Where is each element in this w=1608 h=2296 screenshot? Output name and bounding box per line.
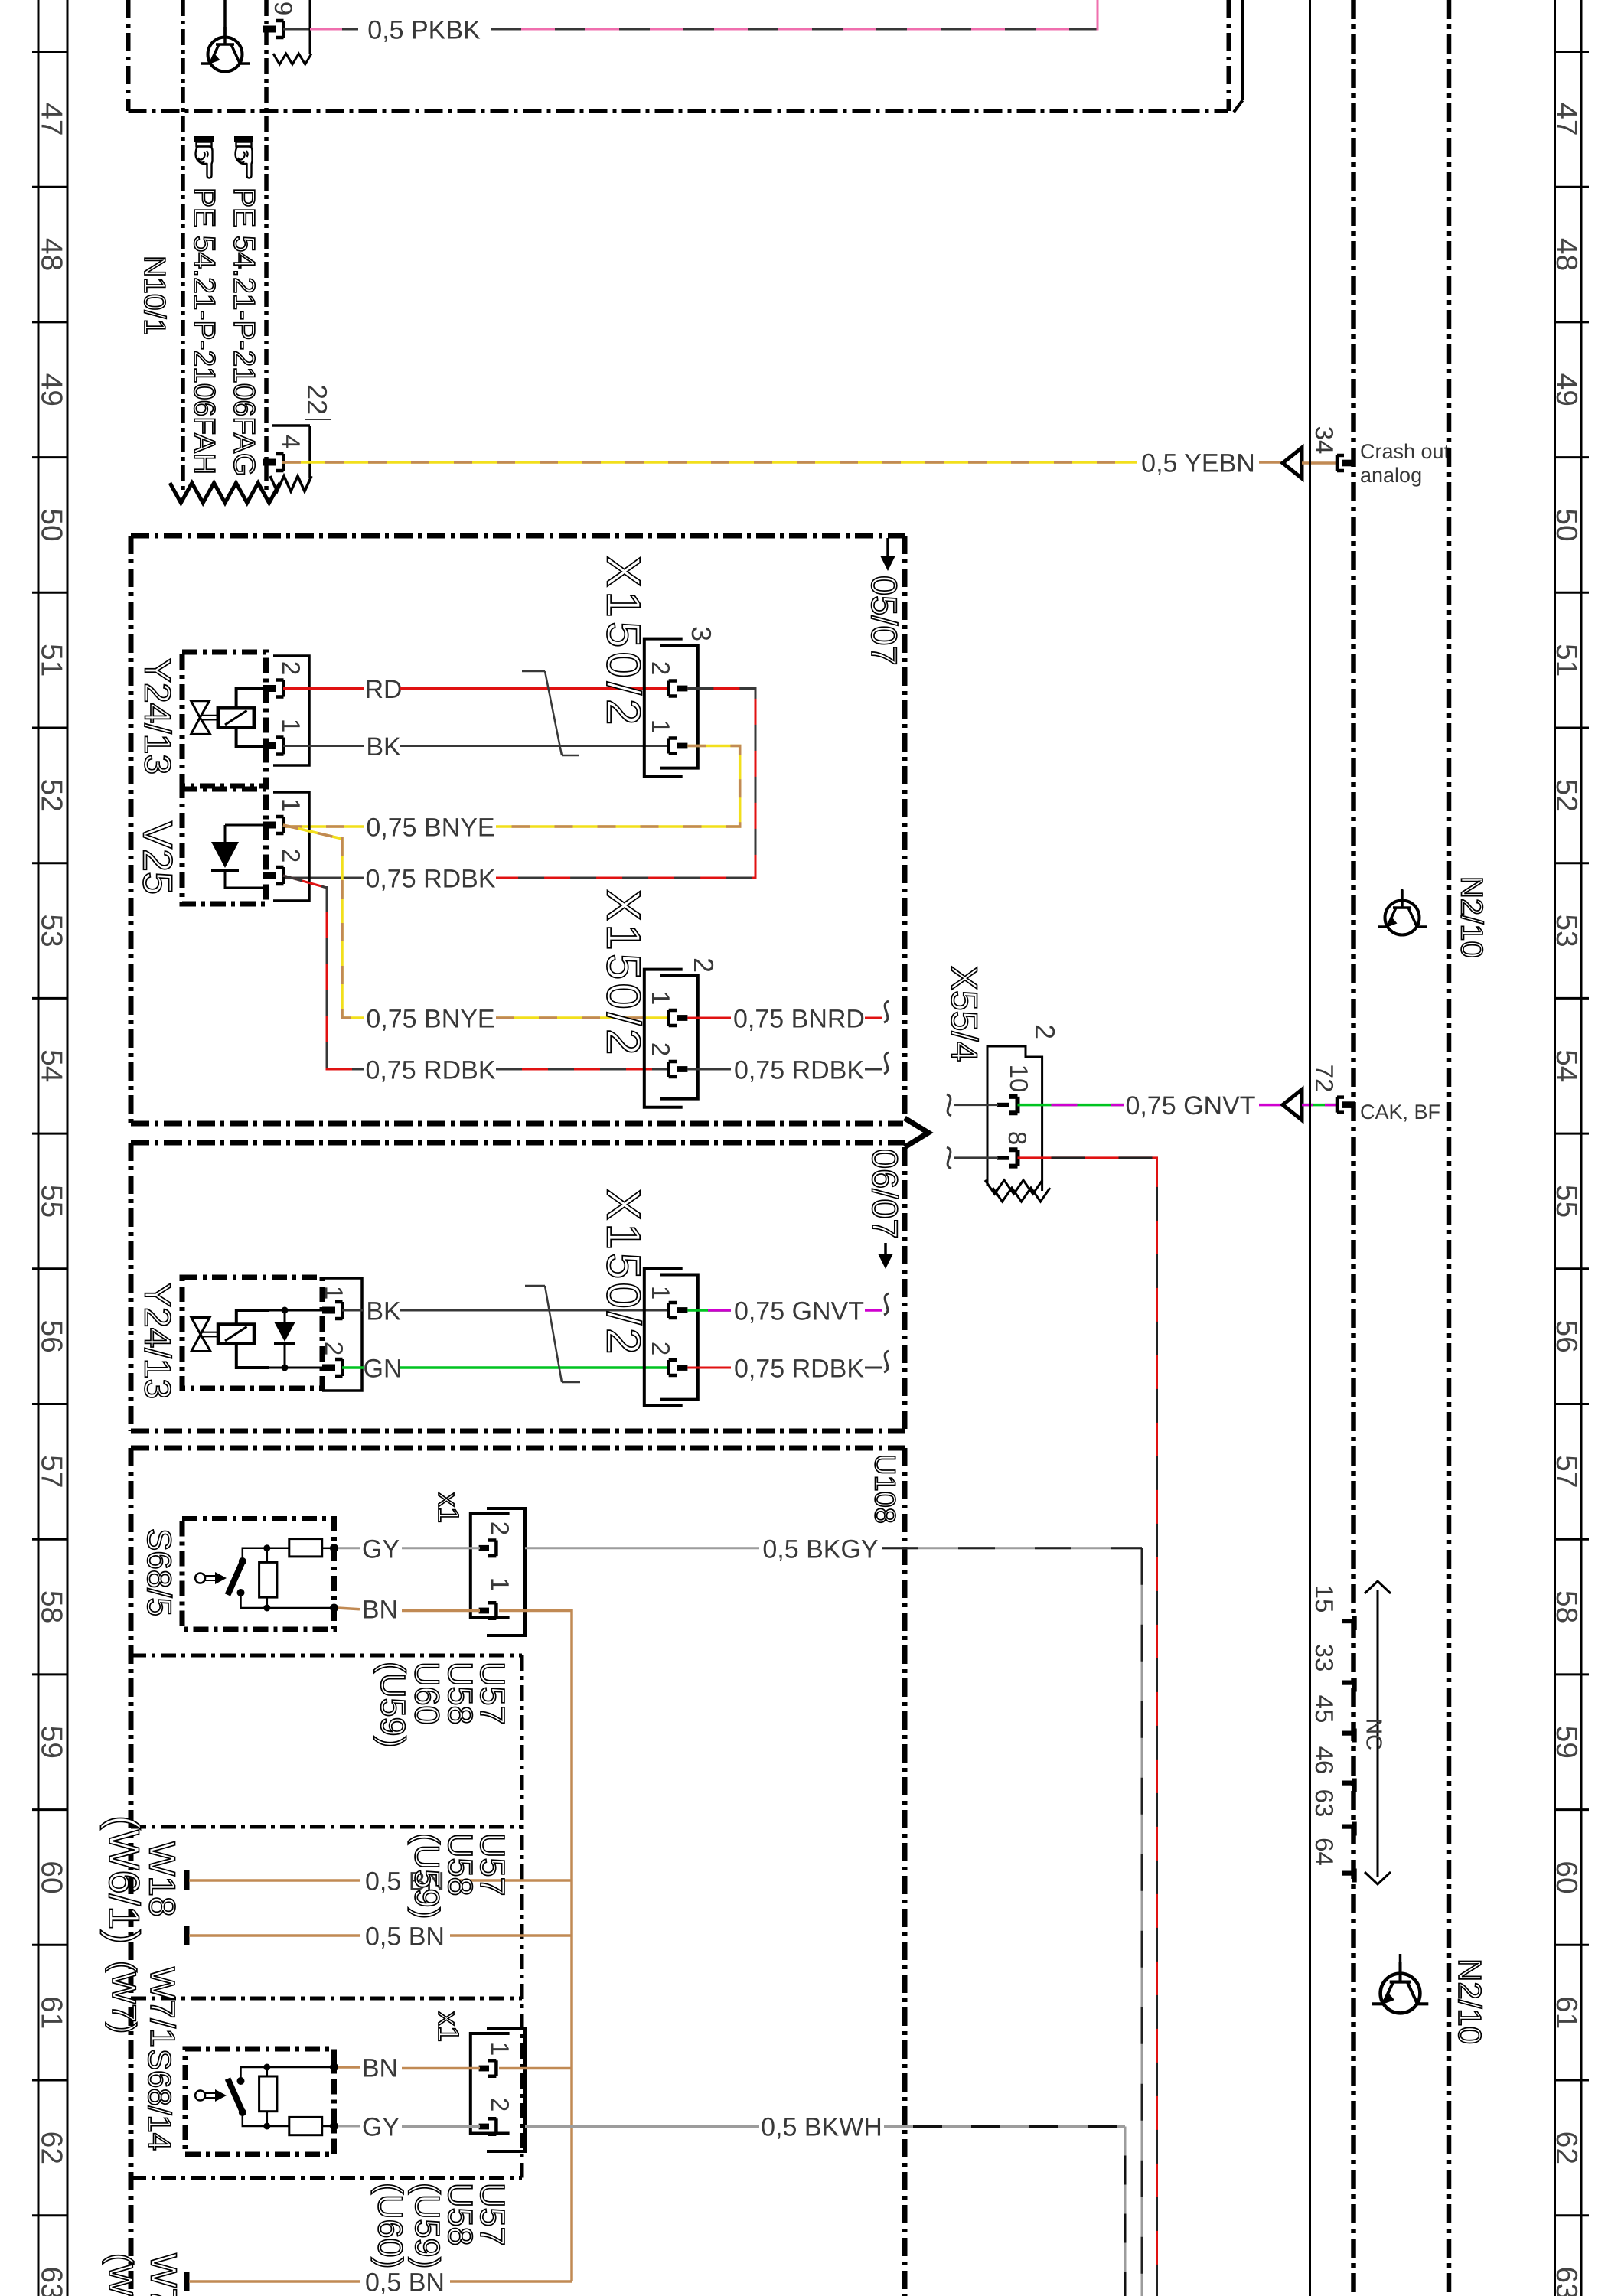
svg-text:BN: BN: [362, 1596, 398, 1625]
svg-text:2: 2: [320, 1342, 348, 1355]
svg-text:56: 56: [34, 1319, 67, 1352]
svg-text:1: 1: [320, 1286, 348, 1300]
svg-text:58: 58: [1550, 1590, 1583, 1623]
svg-text:61: 61: [34, 1996, 67, 2029]
svg-text:Crash out: Crash out: [1360, 440, 1450, 463]
svg-text:57: 57: [34, 1455, 67, 1488]
svg-text:2: 2: [647, 1042, 675, 1056]
svg-text:49: 49: [1550, 373, 1583, 406]
svg-text:X55/4: X55/4: [944, 966, 984, 1062]
svg-text:63: 63: [1310, 1789, 1339, 1818]
svg-text:05/07: 05/07: [864, 576, 905, 666]
svg-text:0,75 GNVT: 0,75 GNVT: [734, 1297, 864, 1326]
svg-text:Y24/13: Y24/13: [137, 658, 178, 775]
svg-text:0,75 GNVT: 0,75 GNVT: [1125, 1091, 1255, 1120]
svg-text:BK: BK: [366, 1297, 401, 1326]
svg-text:U108: U108: [868, 1454, 900, 1524]
svg-text:1: 1: [647, 991, 675, 1005]
svg-text:49: 49: [34, 373, 67, 406]
svg-text:PE 54.21-P-2106FAG: PE 54.21-P-2106FAG: [227, 188, 260, 476]
svg-text:1: 1: [277, 798, 305, 812]
svg-text:62: 62: [34, 2131, 67, 2164]
svg-text:W7/1: W7/1: [143, 1967, 182, 2047]
svg-text:2: 2: [1029, 1024, 1061, 1039]
svg-text:0,75 BNRD: 0,75 BNRD: [733, 1005, 865, 1034]
svg-text:54: 54: [34, 1049, 67, 1082]
svg-text:50: 50: [34, 508, 67, 541]
svg-text:10: 10: [1005, 1065, 1033, 1093]
svg-text:0,5 YEBN: 0,5 YEBN: [1141, 449, 1255, 478]
svg-text:GY: GY: [362, 2113, 400, 2142]
svg-text:(U59): (U59): [408, 2183, 447, 2269]
svg-text:53: 53: [34, 914, 67, 947]
svg-text:52: 52: [34, 779, 67, 812]
svg-text:0,75 BNYE: 0,75 BNYE: [366, 814, 494, 843]
svg-text:59: 59: [34, 1726, 67, 1759]
svg-text:61: 61: [1550, 1996, 1583, 2029]
svg-text:0,5 BKGY: 0,5 BKGY: [762, 1535, 878, 1564]
svg-text:62: 62: [1550, 2131, 1583, 2164]
svg-text:2: 2: [486, 2098, 514, 2112]
svg-text:0,75 RDBK: 0,75 RDBK: [734, 1355, 864, 1384]
svg-text:BN: BN: [362, 2054, 398, 2083]
svg-text:W7: W7: [143, 2253, 184, 2296]
svg-text:0,75 RDBK: 0,75 RDBK: [365, 865, 495, 894]
svg-text:N10/1: N10/1: [138, 256, 171, 335]
svg-text:S68/5: S68/5: [140, 1528, 178, 1616]
svg-text:X150/2: X150/2: [597, 556, 650, 729]
svg-text:0,5 BN: 0,5 BN: [365, 1923, 445, 1952]
svg-text:RD: RD: [364, 675, 402, 704]
svg-text:59: 59: [1550, 1726, 1583, 1759]
svg-text:0,75 RDBK: 0,75 RDBK: [734, 1056, 864, 1085]
svg-text:46: 46: [1310, 1746, 1339, 1775]
svg-text:GY: GY: [362, 1535, 400, 1564]
svg-text:1: 1: [486, 2042, 514, 2056]
svg-text:x1: x1: [432, 2011, 464, 2042]
svg-text:U60: U60: [407, 1662, 446, 1725]
svg-text:(U60): (U60): [370, 2183, 409, 2269]
svg-text:0,75 RDBK: 0,75 RDBK: [365, 1056, 495, 1085]
svg-text:analog: analog: [1360, 464, 1422, 487]
svg-text:2: 2: [277, 849, 305, 863]
svg-text:50: 50: [1550, 508, 1583, 541]
svg-text:22: 22: [302, 384, 333, 415]
svg-text:(W6/1): (W6/1): [100, 1815, 148, 1944]
svg-text:55: 55: [34, 1185, 67, 1218]
svg-text:3: 3: [686, 626, 717, 641]
svg-text:56: 56: [1550, 1319, 1583, 1352]
svg-text:57: 57: [1550, 1455, 1583, 1488]
svg-text:47: 47: [1550, 103, 1583, 135]
svg-text:CAK, BF: CAK, BF: [1360, 1101, 1440, 1124]
svg-text:8: 8: [1003, 1131, 1032, 1145]
svg-text:60: 60: [34, 1861, 67, 1893]
svg-text:(W7): (W7): [105, 1961, 142, 2033]
svg-text:BK: BK: [366, 732, 401, 762]
svg-text:0,5 PKBK: 0,5 PKBK: [367, 16, 481, 45]
svg-text:2: 2: [486, 1521, 514, 1535]
svg-text:55: 55: [1550, 1185, 1583, 1218]
svg-text:S68/14: S68/14: [142, 2049, 178, 2151]
svg-text:58: 58: [34, 1590, 67, 1623]
svg-text:72: 72: [1310, 1065, 1339, 1093]
svg-text:(U59): (U59): [373, 1662, 413, 1748]
svg-text:53: 53: [1550, 914, 1583, 947]
svg-text:NC: NC: [1362, 1718, 1386, 1750]
svg-text:0,5 BKWH: 0,5 BKWH: [761, 2113, 882, 2142]
svg-text:52: 52: [1550, 779, 1583, 812]
svg-text:0,5 BN: 0,5 BN: [365, 2268, 445, 2296]
svg-text:(W7): (W7): [102, 2253, 139, 2296]
svg-text:1: 1: [647, 1286, 675, 1300]
svg-text:1: 1: [486, 1577, 514, 1591]
svg-text:2: 2: [688, 957, 719, 973]
svg-text:15: 15: [1310, 1585, 1339, 1613]
svg-text:63: 63: [1550, 2266, 1583, 2296]
svg-text:X150/2: X150/2: [597, 1189, 650, 1358]
svg-text:2: 2: [647, 1342, 675, 1355]
svg-text:60: 60: [1550, 1861, 1583, 1893]
svg-text:48: 48: [1550, 238, 1583, 271]
svg-text:V25: V25: [135, 821, 181, 895]
svg-text:06/07: 06/07: [865, 1149, 905, 1239]
svg-text:GN: GN: [364, 1355, 403, 1384]
svg-text:64: 64: [1310, 1838, 1339, 1866]
svg-text:33: 33: [1310, 1644, 1339, 1672]
svg-text:45: 45: [1310, 1695, 1339, 1724]
svg-text:1: 1: [277, 719, 305, 732]
svg-text:51: 51: [34, 644, 67, 677]
svg-text:54: 54: [1550, 1049, 1583, 1082]
svg-text:(U59): (U59): [407, 1833, 446, 1919]
svg-text:48: 48: [34, 238, 67, 271]
svg-text:4: 4: [277, 435, 305, 448]
svg-text:X150/2: X150/2: [597, 889, 650, 1058]
svg-text:63: 63: [34, 2266, 67, 2296]
svg-text:9: 9: [269, 2, 298, 15]
svg-text:1: 1: [647, 719, 675, 733]
svg-text:N2/10: N2/10: [1455, 876, 1489, 958]
svg-text:47: 47: [34, 103, 67, 135]
svg-text:PE 54.21-P-2106FAH: PE 54.21-P-2106FAH: [188, 188, 220, 475]
svg-text:2: 2: [647, 661, 675, 675]
svg-text:0,75 BNYE: 0,75 BNYE: [366, 1005, 494, 1034]
svg-text:2: 2: [277, 661, 305, 675]
svg-text:x1: x1: [432, 1492, 464, 1523]
svg-text:N2/10: N2/10: [1452, 1958, 1488, 2044]
svg-text:34: 34: [1310, 426, 1339, 455]
svg-text:51: 51: [1550, 644, 1583, 677]
svg-text:Y24/13: Y24/13: [137, 1283, 178, 1399]
